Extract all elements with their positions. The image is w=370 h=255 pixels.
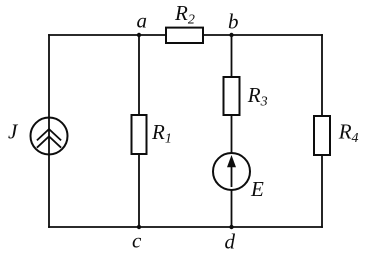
svg-text:J: J	[8, 119, 19, 143]
wire branch b-d	[231, 35, 233, 227]
wire right branch (R4 branch)	[321, 34, 323, 228]
resistor R4	[314, 116, 330, 155]
svg-text:E: E	[250, 177, 264, 201]
resistor R2	[166, 28, 203, 43]
wire bottom rail c-d	[48, 226, 323, 228]
svg-text:b: b	[228, 10, 239, 34]
svg-text:c: c	[132, 229, 142, 253]
node a	[137, 33, 141, 37]
node b	[229, 33, 233, 37]
svg-text:R4: R4	[338, 120, 359, 147]
svg-text:R3: R3	[247, 83, 268, 110]
svg-text:d: d	[225, 229, 236, 253]
resistor R3	[224, 77, 240, 115]
svg-text:a: a	[137, 9, 148, 33]
wire left branch (J branch)	[48, 34, 50, 228]
resistor R1	[132, 115, 147, 154]
node c	[137, 225, 141, 229]
wire branch a-c	[138, 35, 140, 227]
current source J	[31, 118, 68, 155]
svg-text:R2: R2	[174, 1, 195, 28]
svg-text:R1: R1	[151, 120, 172, 147]
voltage source E	[213, 153, 250, 190]
wire top rail a-b	[48, 34, 323, 36]
node d	[229, 225, 233, 229]
